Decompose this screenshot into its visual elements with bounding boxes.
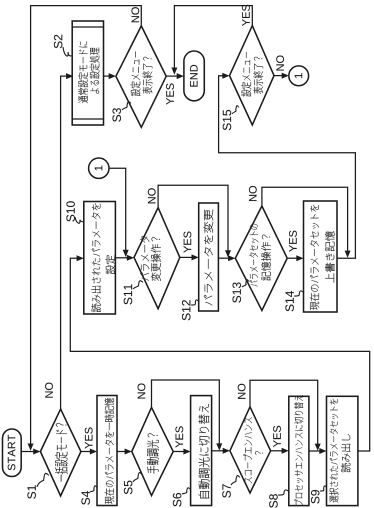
decision S1 batch setting mode? <box>40 409 81 496</box>
wire S10 to S11 <box>115 257 127 259</box>
wire S1 YES to S4 <box>81 451 91 453</box>
label S4 <box>81 491 89 505</box>
wire S11 NO bypass <box>158 185 228 251</box>
label YES (S3) <box>166 83 174 104</box>
wire S7 NO bypass <box>250 380 318 444</box>
label YES (S7) <box>273 426 281 447</box>
label S10 <box>66 201 74 221</box>
label NO (S13) <box>249 186 257 201</box>
process S8 switch to processor enhance <box>289 396 309 505</box>
label YES (S5) <box>175 426 183 447</box>
wire S13 YES to S14 <box>287 257 297 259</box>
wire S12 to S13 <box>218 257 229 259</box>
decision S15 setting menu display finished? <box>230 26 275 125</box>
wire S6 to S7 <box>212 450 224 452</box>
wire S9 return to S10 <box>70 258 369 451</box>
wire S11 YES to S12 <box>180 256 192 258</box>
wire S1 NO up to S2 <box>61 76 67 409</box>
wire START to S1 with junction <box>21 451 34 453</box>
label S13 <box>232 282 240 302</box>
process S6 switch to auto dimming <box>191 396 212 506</box>
label S5 <box>124 481 132 495</box>
wire S14 out up-left into S15 <box>219 76 356 259</box>
label S12 <box>182 300 190 320</box>
label S15 <box>223 110 231 130</box>
label NO (S7) <box>238 384 246 399</box>
wire S3 YES to END <box>166 75 177 77</box>
wire S5 NO bypass <box>152 380 220 444</box>
decision S3 setting menu display finished? <box>116 26 166 127</box>
label NO (S3) <box>131 7 139 22</box>
label YES (S1) <box>85 427 93 448</box>
label NO (S15) <box>276 55 284 70</box>
label S2 <box>54 35 62 49</box>
wire S4 to S5 <box>117 451 126 453</box>
wire S3 NO loop: up over top, down left side, into S1 input <box>31 6 142 445</box>
wire S5 YES to S6 <box>173 451 184 453</box>
label S6 <box>173 493 181 507</box>
connector 1 (middle row entry) <box>89 158 109 178</box>
label YES (S15) <box>242 5 250 26</box>
process S10 set read parameters <box>84 202 116 315</box>
label YES (S11) <box>184 232 192 253</box>
wire connector 1 into S10-S11 line <box>109 168 126 251</box>
connector 1 (from S15 NO) <box>289 66 309 86</box>
wire S8 to S9 <box>309 450 320 452</box>
decision S11 parameter change operation? <box>134 208 180 309</box>
wire S13 NO bypass <box>262 187 348 251</box>
label S8 <box>269 494 277 508</box>
label NO (S5) <box>138 383 146 398</box>
label S9 <box>311 490 319 504</box>
label S7 <box>222 484 230 498</box>
terminator START <box>3 429 22 477</box>
decision S5 manual dimming? <box>132 407 173 495</box>
label S11 <box>124 284 132 304</box>
subroutine S2 setting process in normal setting mode <box>72 21 103 125</box>
label YES (S13) <box>289 231 297 252</box>
wire S15 NO to connector 1 <box>274 75 283 77</box>
wire S15 YES over top to END <box>174 6 252 69</box>
label S3 <box>112 108 120 122</box>
label S14 <box>285 291 293 311</box>
decision S13 parameter set storing operation? <box>235 206 287 311</box>
label S1 <box>27 485 35 499</box>
terminator END <box>184 51 204 101</box>
process S4 store current parameters temporarily <box>97 396 117 506</box>
process S12 change parameters <box>199 203 219 311</box>
label NO (S11) <box>148 188 156 203</box>
process S14 overwrite-store current parameter set <box>304 201 338 312</box>
wire S7 YES to S8 <box>271 450 283 452</box>
label NO (S1) <box>45 383 53 398</box>
process S9 read selected parameter set <box>327 396 358 505</box>
decision S7 scope enhance? <box>230 407 271 493</box>
wire S2 to S3 <box>104 75 110 77</box>
